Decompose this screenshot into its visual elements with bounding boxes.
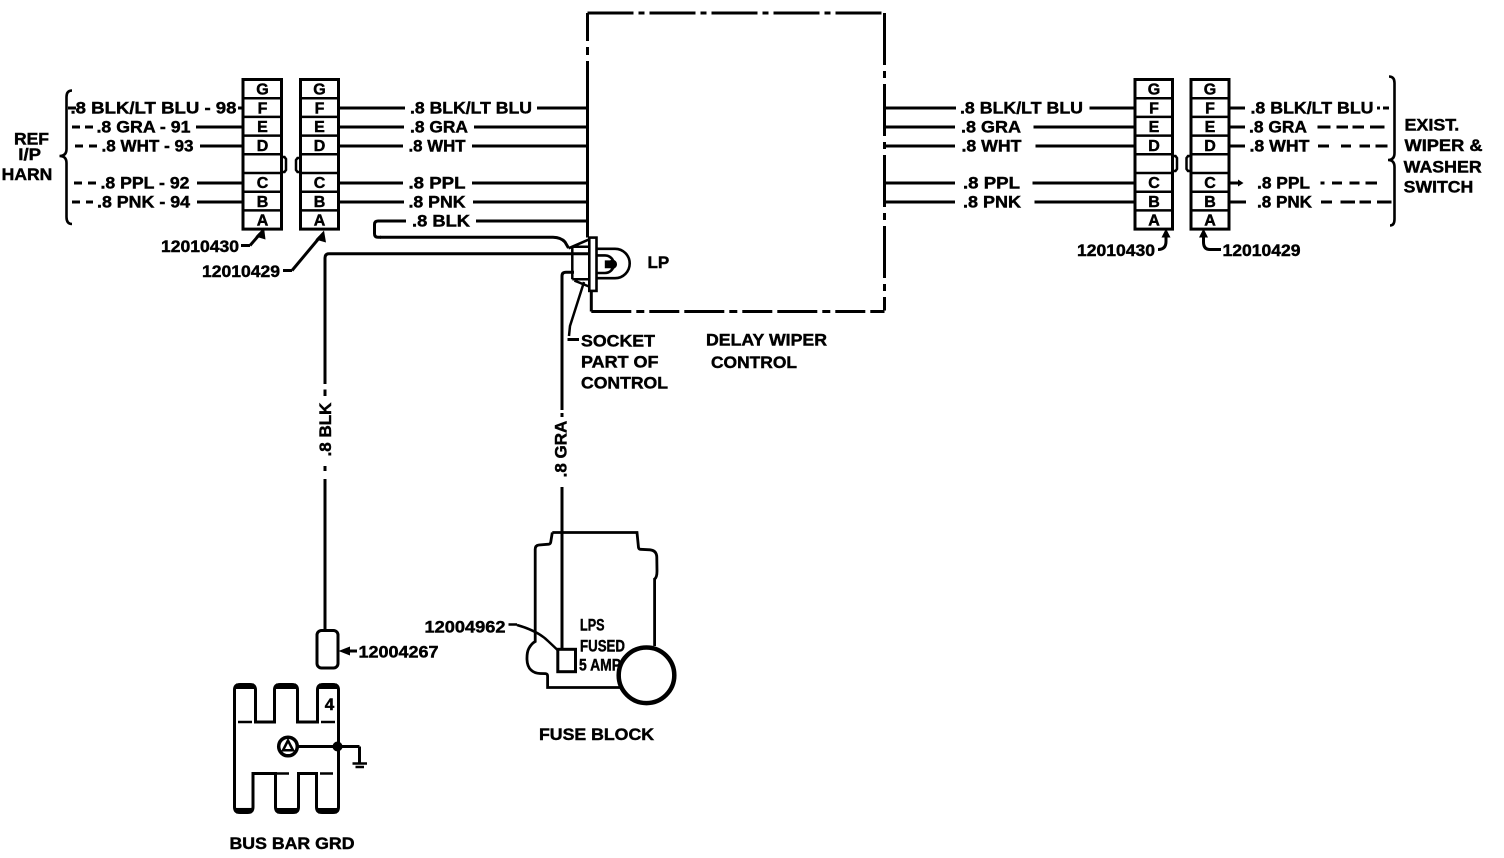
svg-text:C: C — [314, 175, 326, 192]
wire fused feed from socket — [562, 272, 574, 302]
svg-text:.8 GRA: .8 GRA — [1249, 118, 1307, 137]
node DELAY WIPER CONTROL — [706, 331, 827, 373]
svg-text:.8 WHT: .8 WHT — [1250, 137, 1311, 156]
svg-text:.8 PPL - 92: .8 PPL - 92 — [101, 174, 190, 193]
svg-text:A: A — [1148, 213, 1160, 230]
svg-text:E: E — [314, 119, 325, 136]
svg-text:.8 BLK/LT BLU - 98: .8 BLK/LT BLU - 98 — [71, 99, 237, 118]
svg-text:.8 GRA: .8 GRA — [552, 421, 571, 478]
wire .8 PNK (right outer, row B) — [1229, 193, 1392, 212]
fuse LPS FUSED 5 AMP — [558, 649, 576, 671]
svg-text:LP: LP — [648, 253, 670, 272]
svg-text:G: G — [1204, 82, 1216, 99]
svg-text:B: B — [314, 194, 326, 211]
svg-text:D: D — [314, 138, 326, 155]
svg-text:B: B — [257, 194, 269, 211]
svg-text:.8 PNK - 94: .8 PNK - 94 — [97, 193, 191, 212]
svg-text:A: A — [257, 213, 269, 230]
wire .8 BLK riser — [316, 390, 335, 631]
latch bump connector 12010429 left — [296, 158, 301, 172]
svg-text:F: F — [315, 100, 325, 117]
svg-text:12010430: 12010430 — [1077, 241, 1155, 260]
wire .8 BLK (lamp feed, row A level) — [380, 212, 588, 231]
node REF I/P HARN — [2, 130, 53, 185]
connector 12010430 left — [243, 80, 282, 230]
connector 12010429 left — [301, 80, 339, 230]
label 12010429 right with leader — [1199, 229, 1301, 261]
node EXIST. WIPER & WASHER SWITCH — [1404, 116, 1483, 197]
svg-text:SWITCH: SWITCH — [1404, 178, 1474, 197]
lamp LP socket — [569, 238, 630, 291]
label 12004267 with arrow — [339, 643, 439, 662]
svg-text:.8 BLK/LT BLU: .8 BLK/LT BLU — [410, 99, 532, 118]
wire .8 PPL (right outer, row C) — [1229, 174, 1377, 193]
ground symbol — [353, 764, 368, 768]
wire .8 PNK (right of box, row B) — [885, 193, 1136, 212]
wire .8 GRA (right of box, row E) — [885, 118, 1136, 137]
svg-text:SOCKET: SOCKET — [581, 332, 656, 351]
wire screw to ground — [297, 742, 359, 764]
leader SOCKET PART OF CONTROL — [568, 282, 585, 340]
svg-text:.8 PNK: .8 PNK — [409, 193, 467, 212]
svg-text:.8 PNK: .8 PNK — [1257, 193, 1313, 212]
svg-text:A: A — [1204, 213, 1216, 230]
wire .8 GRA (middle, row E) — [339, 118, 588, 137]
wire .8 PPL (right of box, row C) — [885, 174, 1136, 193]
svg-text:.8 BLK/LT BLU: .8 BLK/LT BLU — [960, 99, 1083, 118]
svg-text:.8 WHT - 93: .8 WHT - 93 — [102, 137, 194, 156]
svg-text:G: G — [256, 82, 268, 99]
wire .8 BLK/LT BLU - 98 (left outer, row F) — [68, 99, 243, 118]
svg-text:CONTROL: CONTROL — [581, 374, 668, 393]
svg-text:CONTROL: CONTROL — [711, 353, 797, 372]
wire .8 GRA (right outer, row E) — [1229, 118, 1385, 137]
svg-text:HARN: HARN — [2, 165, 53, 184]
wire hook .8 BLK return — [375, 221, 382, 237]
svg-text:5 AMP: 5 AMP — [579, 656, 621, 675]
connector 12004267 — [317, 631, 338, 669]
svg-text:FUSE BLOCK: FUSE BLOCK — [539, 725, 655, 744]
label 12010430 right with leader — [1077, 229, 1171, 261]
latch bump connector 12010430 right — [1173, 156, 1178, 171]
svg-text:.8 GRA: .8 GRA — [410, 118, 468, 137]
connector 12010429 right — [1191, 80, 1229, 230]
svg-text:.8 PNK: .8 PNK — [963, 193, 1022, 212]
svg-text:.8 PPL: .8 PPL — [1257, 174, 1310, 193]
label 12010430 left with leader arrow — [161, 228, 266, 257]
svg-text:BUS BAR GRD: BUS BAR GRD — [230, 834, 355, 853]
svg-text:.8 BLK: .8 BLK — [316, 402, 335, 457]
svg-text:B: B — [1204, 194, 1216, 211]
wire .8 GRA - 91 (left outer, row E) — [72, 118, 243, 137]
label 12004962 with curved leader — [425, 618, 559, 652]
svg-text:12004267: 12004267 — [359, 643, 439, 662]
svg-text:E: E — [1149, 119, 1160, 136]
svg-text:.8 PPL: .8 PPL — [409, 174, 466, 193]
svg-text:.8 GRA: .8 GRA — [961, 118, 1021, 137]
svg-text:E: E — [257, 119, 268, 136]
wire .8 PNK (middle, row B) — [339, 193, 588, 212]
wire .8 BLK/LT BLU (right outer, row F) — [1229, 99, 1389, 118]
svg-text:.8 BLK: .8 BLK — [412, 212, 471, 231]
wire .8 WHT (middle, row D) — [339, 137, 588, 156]
svg-text:DELAY WIPER: DELAY WIPER — [706, 331, 827, 350]
svg-text:LPS: LPS — [580, 616, 605, 635]
svg-text:12010429: 12010429 — [1223, 241, 1301, 260]
label 12010429 left with leader arrow — [202, 231, 326, 282]
control box (dash-dot outline) — [588, 13, 885, 312]
svg-text:D: D — [1204, 138, 1216, 155]
svg-text:.8 GRA - 91: .8 GRA - 91 — [97, 118, 191, 137]
svg-text:.8 WHT: .8 WHT — [962, 137, 1023, 156]
svg-text:D: D — [257, 138, 269, 155]
svg-text:.8 PPL: .8 PPL — [963, 174, 1020, 193]
wire ground from socket (to .8 BLK riser) — [325, 254, 589, 384]
wire .8 PPL (middle, row C) — [339, 174, 588, 193]
svg-text:B: B — [1148, 194, 1160, 211]
svg-text:F: F — [258, 100, 268, 117]
wire .8 WHT - 93 (left outer, row D) — [75, 137, 243, 156]
fuse block outline — [527, 533, 657, 688]
svg-text:C: C — [1204, 175, 1216, 192]
svg-text:E: E — [1205, 119, 1216, 136]
svg-text:FUSED: FUSED — [580, 637, 625, 656]
svg-text:WIPER &: WIPER & — [1405, 136, 1483, 155]
svg-text:PART OF: PART OF — [581, 353, 659, 372]
svg-text:12010429: 12010429 — [202, 262, 280, 281]
wire lamp return to socket — [380, 237, 569, 248]
fuse block lamp circle — [619, 648, 675, 704]
wire .8 PNK - 94 (left outer, row B) — [72, 193, 243, 212]
svg-text:.8 WHT: .8 WHT — [409, 137, 467, 156]
svg-text:I/P: I/P — [18, 145, 41, 164]
svg-text:F: F — [1205, 100, 1215, 117]
svg-text:G: G — [313, 82, 325, 99]
connector 12010430 right — [1135, 80, 1173, 230]
wire .8 WHT (right outer, row D) — [1229, 137, 1388, 156]
svg-text:D: D — [1148, 138, 1160, 155]
svg-text:4: 4 — [325, 695, 335, 714]
svg-text:WASHER: WASHER — [1404, 157, 1482, 176]
wire .8 GRA riser — [552, 302, 571, 650]
latch bump connector 12010429 right — [1187, 156, 1192, 171]
svg-text:A: A — [314, 213, 326, 230]
svg-text:F: F — [1149, 100, 1159, 117]
label SOCKET PART OF CONTROL — [581, 332, 668, 393]
wire .8 BLK/LT BLU (middle, row F) — [339, 99, 588, 118]
wire .8 BLK/LT BLU (right of box, row F) — [885, 99, 1136, 118]
wire .8 PPL - 92 (left outer, row C) — [74, 174, 243, 193]
svg-text:C: C — [257, 175, 269, 192]
svg-text:.8 BLK/LT BLU: .8 BLK/LT BLU — [1251, 99, 1374, 118]
svg-text:12010430: 12010430 — [161, 237, 239, 256]
brace left (REF I/P HARN) — [60, 91, 73, 225]
svg-text:EXIST.: EXIST. — [1405, 116, 1460, 135]
svg-text:12004962: 12004962 — [425, 618, 506, 637]
bus bar ground — [235, 685, 339, 813]
svg-text:C: C — [1148, 175, 1160, 192]
brace right (EXIST. WIPER & WASHER SWITCH) — [1388, 77, 1395, 226]
svg-text:G: G — [1148, 82, 1160, 99]
latch bump connector 12010430 left — [282, 157, 287, 172]
wire .8 WHT (right of box, row D) — [885, 137, 1136, 156]
screw terminal — [279, 737, 298, 756]
